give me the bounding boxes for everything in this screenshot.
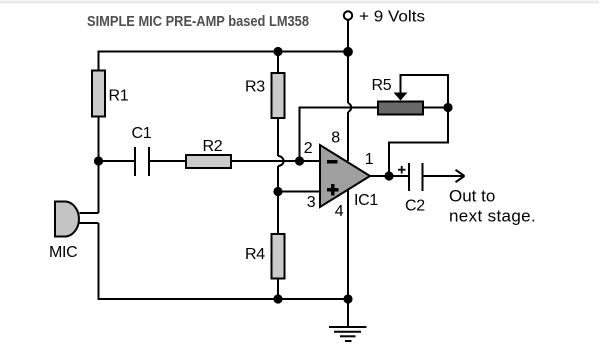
capacitor C2 xyxy=(409,163,423,191)
wire R4 bottom to ground rail xyxy=(277,278,279,299)
svg-text:4: 4 xyxy=(335,203,344,220)
svg-text:Out to: Out to xyxy=(449,187,495,206)
label R2 xyxy=(203,138,223,155)
svg-text:8: 8 xyxy=(331,130,340,147)
svg-text:R3: R3 xyxy=(245,79,265,96)
wire feedback down to output node xyxy=(389,108,448,177)
svg-text:next stage.: next stage. xyxy=(449,207,536,226)
wire feedback from inverting node up xyxy=(299,107,301,161)
label R5 xyxy=(372,77,392,94)
potentiometer R5 wiper arrow xyxy=(394,93,408,101)
svg-text:1: 1 xyxy=(365,151,374,168)
wire R3 top to rail xyxy=(277,52,279,75)
wire pin4 down to ground rail xyxy=(347,189,349,299)
svg-text:2: 2 xyxy=(304,140,313,157)
svg-text:+ 9 Volts: + 9 Volts xyxy=(359,9,425,26)
potentiometer R5 body xyxy=(378,102,423,115)
wire R5 right terminal xyxy=(423,107,448,109)
wire R3 bottom with hop over signal wire xyxy=(278,118,284,235)
wire +9V column hop over feedback wire xyxy=(348,52,351,162)
label R4 xyxy=(245,246,265,263)
pin 1 label xyxy=(365,151,374,168)
pin 2 label xyxy=(304,140,313,157)
label C1 xyxy=(132,125,152,142)
wire R2 to op-amp inverting input xyxy=(231,160,320,162)
output arrow head xyxy=(456,170,465,182)
wire R1 bottom to input node xyxy=(98,117,100,214)
resistor R3 xyxy=(272,73,285,118)
wire bottom ground rail xyxy=(98,298,348,300)
wire down to ground symbol xyxy=(347,299,349,327)
node R3 top junction xyxy=(273,47,282,56)
svg-text:R4: R4 xyxy=(245,246,265,263)
node +9V rail junction xyxy=(343,47,353,57)
node inverting input junction xyxy=(295,156,304,165)
label R3 xyxy=(245,79,265,96)
label C2 xyxy=(405,198,425,215)
wire top rail xyxy=(98,51,348,53)
svg-text:3: 3 xyxy=(307,194,316,211)
resistor R1 xyxy=(92,71,105,117)
op-amp IC1 triangle xyxy=(320,145,370,207)
node R4 ground junction xyxy=(273,294,282,303)
label MIC xyxy=(49,244,77,261)
pin 4 label xyxy=(335,203,344,220)
wire supply terminal to top rail xyxy=(347,20,349,52)
op-amp plus symbol xyxy=(327,184,339,196)
node output junction xyxy=(384,171,393,180)
svg-text:MIC: MIC xyxy=(49,244,77,261)
capacitor C2 plus sign xyxy=(398,166,406,174)
wire C2 to output arrow xyxy=(423,175,465,177)
wire MIC lower terminal xyxy=(80,222,99,224)
svg-text:C1: C1 xyxy=(132,125,152,142)
title xyxy=(87,13,309,30)
pin 3 label xyxy=(307,194,316,211)
wire MIC upper terminal xyxy=(80,212,99,214)
svg-text:C2: C2 xyxy=(405,198,425,215)
microphone MIC body xyxy=(55,202,79,237)
op-amp minus symbol xyxy=(327,160,338,164)
node non-inverting input junction xyxy=(273,187,282,196)
node R5 right junction xyxy=(443,103,452,112)
wire feedback horizontal to R5 xyxy=(299,107,378,109)
+9V supply terminal xyxy=(344,11,352,19)
node input junction (R1/C1/MIC) xyxy=(94,156,103,165)
wire top rail down to R1 xyxy=(98,51,100,71)
svg-text:SIMPLE MIC PRE-AMP based LM358: SIMPLE MIC PRE-AMP based LM358 xyxy=(87,13,309,30)
resistor R2 xyxy=(186,155,231,168)
resistor R4 xyxy=(272,234,285,279)
wire C1 to R2 xyxy=(149,160,186,162)
node ground junction xyxy=(343,294,352,303)
+9V label xyxy=(359,9,425,26)
label out to next stage xyxy=(449,187,536,226)
wire MIC lower terminal down to ground rail xyxy=(98,223,100,300)
svg-text:IC1: IC1 xyxy=(354,192,378,209)
svg-text:R5: R5 xyxy=(372,77,392,94)
svg-text:R1: R1 xyxy=(109,88,129,105)
pin 8 label xyxy=(331,130,340,147)
label IC1 xyxy=(354,192,378,209)
wire non-inverting input xyxy=(278,191,320,193)
svg-text:R2: R2 xyxy=(203,138,223,155)
capacitor C1 xyxy=(135,147,149,176)
wire R5 wiper to right terminal xyxy=(401,75,449,108)
ground xyxy=(329,327,367,341)
wire input node to C1 xyxy=(99,160,136,162)
wire op-amp output xyxy=(370,175,409,177)
label R1 xyxy=(109,88,129,105)
